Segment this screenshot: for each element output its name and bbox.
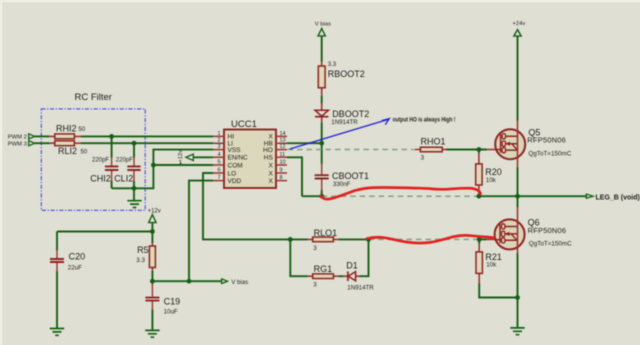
svg-text:10k: 10k	[486, 177, 497, 184]
svg-text:X: X	[268, 170, 273, 177]
svg-text:HO: HO	[263, 147, 273, 154]
svg-text:PWM 3: PWM 3	[8, 142, 27, 148]
svg-text:C19: C19	[164, 297, 181, 307]
svg-text:X: X	[268, 162, 273, 169]
svg-text:output HO is always High !: output HO is always High !	[393, 117, 456, 124]
svg-text:1N914TR: 1N914TR	[347, 285, 374, 292]
svg-text:EN/NC: EN/NC	[228, 155, 249, 162]
svg-text:12: 12	[280, 144, 286, 150]
svg-text:330nF: 330nF	[333, 181, 351, 188]
svg-text:8: 8	[280, 175, 283, 181]
svg-text:7: 7	[217, 175, 220, 181]
svg-text:2: 2	[217, 138, 220, 144]
svg-text:RLO1: RLO1	[314, 228, 338, 238]
svg-text:RC Filter: RC Filter	[75, 92, 112, 103]
svg-text:3: 3	[421, 155, 425, 162]
svg-text:COM: COM	[228, 162, 243, 169]
svg-text:14: 14	[280, 131, 286, 137]
svg-text:R5: R5	[137, 245, 149, 255]
svg-text:LO: LO	[228, 170, 237, 177]
svg-text:D1: D1	[346, 260, 358, 270]
svg-text:V bias: V bias	[231, 280, 248, 286]
svg-text:RHI2: RHI2	[56, 123, 77, 133]
svg-text:50: 50	[79, 127, 86, 133]
svg-text:CHI2: CHI2	[90, 173, 111, 183]
svg-text:HS: HS	[264, 155, 274, 162]
svg-text:RFP50N06: RFP50N06	[528, 226, 567, 235]
svg-text:CLI2: CLI2	[114, 173, 133, 183]
svg-text:11: 11	[280, 152, 286, 158]
svg-text:QgToT=150mC: QgToT=150mC	[528, 151, 571, 158]
svg-text:10uF: 10uF	[164, 309, 178, 316]
svg-text:3: 3	[313, 282, 317, 289]
svg-text:+12v: +12v	[148, 208, 161, 214]
svg-text:LEG_B (void): LEG_B (void)	[596, 194, 640, 201]
svg-text:UCC1: UCC1	[231, 119, 257, 130]
svg-text:RBOOT2: RBOOT2	[328, 69, 365, 79]
svg-text:+12v: +12v	[178, 150, 184, 162]
svg-text:3: 3	[217, 144, 220, 150]
svg-text:QgToT=150mC: QgToT=150mC	[529, 241, 572, 248]
svg-text:22uF: 22uF	[68, 265, 82, 272]
svg-text:PWM 2: PWM 2	[8, 135, 27, 141]
svg-text:RLI2: RLI2	[58, 146, 77, 156]
svg-text:DBOOT2: DBOOT2	[332, 109, 369, 119]
svg-text:RHO1: RHO1	[421, 136, 446, 146]
svg-text:3: 3	[313, 245, 317, 252]
svg-text:4: 4	[217, 152, 220, 158]
svg-text:1: 1	[217, 131, 220, 137]
svg-text:220pF: 220pF	[116, 158, 133, 164]
svg-text:3.3: 3.3	[136, 257, 145, 264]
svg-text:R21: R21	[485, 252, 502, 262]
svg-text:VSS: VSS	[228, 147, 242, 154]
svg-text:5: 5	[217, 160, 220, 166]
svg-text:6: 6	[217, 168, 220, 174]
svg-text:3.3: 3.3	[328, 62, 337, 68]
svg-text:RFP50N06: RFP50N06	[527, 135, 566, 144]
svg-text:10k: 10k	[486, 262, 497, 269]
svg-text:13: 13	[280, 138, 286, 144]
svg-text:VDD: VDD	[228, 178, 242, 185]
svg-text:1N914TR: 1N914TR	[331, 119, 358, 126]
svg-text:10: 10	[280, 160, 286, 166]
svg-text:C20: C20	[69, 252, 86, 262]
svg-text:X: X	[268, 178, 273, 185]
svg-text:V bias: V bias	[315, 21, 331, 27]
svg-text:+24v: +24v	[513, 21, 526, 27]
svg-text:R20: R20	[485, 167, 502, 177]
svg-text:RG1: RG1	[314, 264, 333, 274]
svg-text:9: 9	[280, 168, 283, 174]
svg-text:220pF: 220pF	[92, 158, 109, 164]
svg-text:CBOOT1: CBOOT1	[332, 171, 369, 181]
svg-text:50: 50	[81, 150, 88, 156]
